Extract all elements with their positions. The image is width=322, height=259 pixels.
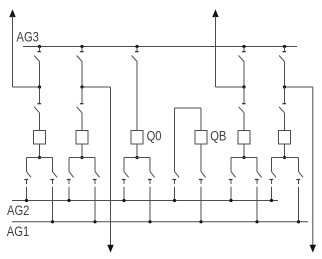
breaker bay2 [76,131,88,145]
disconnector bay5 breaker-side [239,87,246,113]
arrow feeder F4 [310,245,316,253]
junction bay3 on AG2 [122,199,125,202]
label QB [210,129,226,144]
switch bay6 to AG2 [269,160,276,201]
wire feeder F2 drop [215,16,217,88]
wire bay6 box-to-split [284,144,286,158]
breaker QB [195,131,207,145]
wire bay6 riser lower [284,113,286,131]
junction bay1 on AG2 [25,199,28,202]
junction bay3 on AG3 bus [135,45,138,48]
wire bay1 left branch drop [26,158,28,161]
wire bay2 left branch drop [68,158,70,161]
wire bay3 riser [136,62,138,131]
disconnector bay3 busbar-side [132,47,139,62]
breaker bay6 [279,131,291,145]
wire feeder F2 tap [216,86,245,88]
busbar AG1 [12,221,308,223]
wire bay2 riser lower [81,113,83,131]
wire bay2 box-to-split [81,144,83,158]
switch bay2 to AG1 [93,160,100,222]
wire bay1 right branch drop [52,158,54,161]
junction bay5 on AG1 [255,220,258,223]
switch bay6 to AG1 [296,160,303,222]
label AG1 [7,224,29,239]
wire bay6 left branch drop [271,158,273,161]
breaker bay5 [238,131,250,145]
wire bay2 right branch drop [94,158,96,161]
junction bay2 tap node [80,85,83,88]
label AG2 [7,203,29,218]
switch bay1 to AG2 [24,160,31,201]
junction bay5 on AG2 [229,199,232,202]
svg-text:Q0: Q0 [147,129,162,144]
wire bay1 riser lower [39,113,41,131]
svg-text:AG3: AG3 [17,29,39,44]
disconnector bay5 busbar-side [239,47,246,62]
wire bay3 right branch drop [149,158,151,161]
wire feeder F4 drop [312,87,314,246]
disconnector bay2 busbar-side [77,47,84,62]
switch bay1 to AG1 [50,160,57,222]
wire bay5 right branch drop [256,158,258,161]
wire bay6 riser upper [284,62,286,88]
wire bay4 right leg upper [200,108,202,131]
disconnector bay1 breaker-side [34,87,41,113]
disconnector bay6 busbar-side [279,47,286,62]
switch bay5 to AG2 [229,160,236,201]
wire bay4 right leg lower [200,144,202,160]
junction bay6 on AG3 bus [283,45,286,48]
switch bay4 to AG1 [199,160,206,222]
junction bay5 tap node [242,85,245,88]
wire bay5 riser lower [243,113,245,131]
label Q0 [147,129,162,144]
svg-text:AG1: AG1 [7,224,29,239]
wire bay4 left leg [174,108,176,160]
junction bay1 on AG1 [51,220,54,223]
wire bay3 box-to-split [136,144,138,158]
svg-text:AG2: AG2 [7,203,29,218]
junction bay5 on AG3 bus [242,45,245,48]
disconnector bay1 busbar-side [34,47,41,62]
junction bay6 tap node [283,85,286,88]
junction bay1 split node [38,156,41,159]
disconnector bay6 breaker-side [279,87,286,113]
arrow feeder F3 [107,245,113,253]
junction bay5 split node [242,156,245,159]
junction bay6 on AG2 [270,199,273,202]
busbar AG3 [23,46,297,48]
junction bay3 on AG1 [148,220,151,223]
wire bay4 bridge [175,107,202,109]
wire bay5 split bar [231,157,257,159]
junction bay3 split node [135,156,138,159]
wire bay2 split bar [69,157,95,159]
switch bay3 to AG1 [148,160,155,222]
wire bay5 riser upper [243,62,245,88]
junction bay2 on AG2 [67,199,70,202]
junction bay4 on AG2 [173,199,176,202]
wire bay1 split bar [27,157,53,159]
junction bay1 on AG3 bus [38,45,41,48]
wire feeder F4 tap [285,86,313,88]
switch bay3 to AG2 [122,160,129,201]
wire bay1 box-to-split [39,144,41,158]
junction bay1 tap node [38,85,41,88]
switch bay4 to AG2 [172,160,179,201]
arrow feeder F2 [212,9,218,17]
junction bay2 on AG3 bus [80,45,83,48]
wire bay3 left branch drop [123,158,125,161]
wire feeder F3 tap [82,86,111,88]
switch bay5 to AG1 [255,160,262,222]
wire feeder F1 tap [13,86,40,88]
wire bay6 right branch drop [298,158,300,161]
junction bay6 split node [283,156,286,159]
wire feeder F3 drop [110,87,112,246]
switch bay2 to AG2 [67,160,74,201]
arrow feeder F1 [9,9,15,17]
junction bay2 on AG1 [93,220,96,223]
breaker bay1 [34,131,46,145]
label AG3 [17,29,39,44]
wire feeder F1 drop [12,16,14,88]
disconnector bay2 breaker-side [77,87,84,113]
junction bay2 split node [80,156,83,159]
wire bay3 split bar [124,157,150,159]
wire bay2 riser upper [81,62,83,88]
wire bay6 split bar [272,157,299,159]
wire bay5 left branch drop [230,158,232,161]
svg-text:QB: QB [210,129,226,144]
wire bay1 riser upper [39,62,41,88]
wire bay5 box-to-split [243,144,245,158]
busbar AG2 [12,200,278,202]
breaker Q0 [131,131,143,145]
junction bay4 on AG1 [199,220,202,223]
junction bay6 on AG1 [297,220,300,223]
